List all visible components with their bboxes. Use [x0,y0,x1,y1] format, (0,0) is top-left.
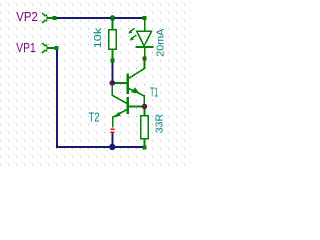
pin square top node [111,16,115,20]
pin square 33R bottom [143,146,147,150]
pin square VP1 [55,46,59,50]
svg-text:T2: T2 [89,110,100,125]
voltage pin VP1 symbol [42,43,55,53]
LED emission arrows [128,28,136,41]
transistor T2 (NPN mirrored) [112,86,142,128]
T1 base lead [115,82,127,84]
T2 bar [127,97,130,114]
T2 base lead [129,106,143,108]
wire VP1 down (left rail) [56,49,58,147]
pin square LED top [143,16,147,20]
T1 emitter arrow [131,87,140,93]
wire VP2 to LED (top rail) [56,17,144,19]
svg-text:20mA: 20mA [156,28,167,56]
voltage pin VP2 symbol [42,13,53,23]
svg-text:10k: 10k [93,27,104,49]
wire T2 emitter to bottom rail [111,133,113,147]
junction T1 emitter node [142,104,147,109]
T1 collector lead [129,60,145,78]
wire 10k bottom to node B [112,62,114,83]
svg-text:33R: 33R [155,114,166,133]
pin square 10k bottom [111,59,115,63]
LED D1 [136,20,154,59]
T1 emitter lead [129,89,145,105]
red cross T1 emitter node [143,105,146,108]
transistor T1 (NPN) [115,60,145,104]
red mark T2 emitter pin [110,128,114,130]
wire bottom rail [56,146,143,148]
pin square VP2 [53,16,57,20]
T2 emitter arrow [112,112,120,118]
junction top node [110,15,115,20]
svg-text:T1: T1 [150,85,158,100]
svg-text:VP1: VP1 [16,40,36,55]
T1 bar [127,74,130,95]
pin square LED bottom / T1 collector [143,57,147,61]
T2 collector lead [112,86,126,104]
resistor R1 10k [109,19,117,60]
junction node B [110,80,116,86]
resistor R2 33R [141,108,149,146]
red cross node B [111,81,112,82]
svg-text:VP2: VP2 [16,9,38,24]
junction bottom node [109,144,115,150]
T2 emitter lead [113,110,127,128]
